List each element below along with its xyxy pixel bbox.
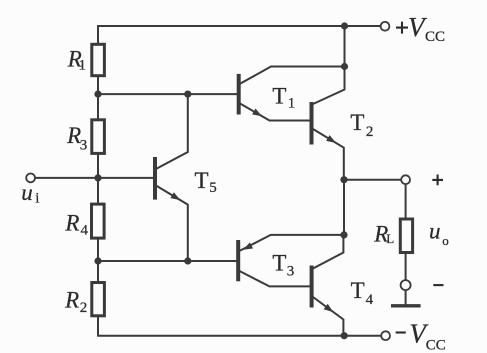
wire +Vcc branch vertical xyxy=(344,26,346,67)
wire T3 emitter to node xyxy=(240,235,345,251)
wire T3 collector to T4 base xyxy=(240,271,310,286)
wire input terminal to T5 base xyxy=(35,177,153,179)
wire bottom rail -Vcc xyxy=(98,335,381,337)
transistor T2 emitter arrow xyxy=(326,135,336,143)
resistor R1 xyxy=(92,44,105,75)
svg-text:CC: CC xyxy=(425,29,445,45)
transistor T1 emitter arrow xyxy=(252,109,262,117)
wire T5 emitter down to node xyxy=(157,186,188,261)
svg-text:3: 3 xyxy=(80,138,88,154)
svg-text:L: L xyxy=(386,231,394,246)
wire T1 emitter to T2 base xyxy=(240,104,310,121)
resistor RL xyxy=(400,219,412,253)
terminal input ui xyxy=(26,174,35,183)
wire output node to terminal xyxy=(344,179,401,181)
svg-text:1: 1 xyxy=(79,57,87,73)
transistor T3 bar xyxy=(236,240,240,281)
node dot top rail xyxy=(341,22,348,29)
svg-text:R: R xyxy=(64,287,79,312)
terminal ground side xyxy=(401,280,411,290)
wire left bus top to R1 xyxy=(97,26,99,45)
wire RL terminal to resistor xyxy=(405,184,407,218)
node dot T5 collector line xyxy=(184,91,191,98)
wire T2 emitter to output node xyxy=(313,129,344,180)
svg-text:o: o xyxy=(442,233,449,248)
svg-text:i: i xyxy=(35,191,39,207)
svg-text:2: 2 xyxy=(366,124,374,140)
svg-text:T: T xyxy=(351,278,365,303)
wire T5 collector up to node xyxy=(157,94,188,168)
terminal output uo xyxy=(401,175,410,184)
svg-text:T: T xyxy=(272,84,286,109)
wire T4 upper lead to node xyxy=(313,235,343,269)
svg-text:T: T xyxy=(350,110,364,135)
node dot T3/T4 emitter junction xyxy=(340,231,347,238)
transistor T5 bar xyxy=(153,157,157,200)
svg-text:4: 4 xyxy=(81,223,89,239)
node dot input junction xyxy=(94,174,101,181)
svg-text:2: 2 xyxy=(80,300,88,316)
wire ground circle to ground xyxy=(405,290,407,304)
resistor R3 xyxy=(92,120,105,154)
label - output xyxy=(433,284,443,286)
svg-text:4: 4 xyxy=(366,292,374,308)
resistor R4 xyxy=(92,204,105,238)
wire RL bottom to ground circle xyxy=(405,253,407,280)
terminal +Vcc xyxy=(381,22,390,31)
node dot R4/R2 xyxy=(94,257,101,264)
wire R2 bottom to bottom rail xyxy=(97,316,99,336)
wire top rail +Vcc xyxy=(98,25,381,27)
transistor T3 emitter arrow (PNP, points to bar) xyxy=(243,242,253,249)
wire node line R4/R2 junction to T3 base xyxy=(98,260,236,262)
wire T2 collector to junction xyxy=(313,67,345,105)
wire output node down to lower node xyxy=(343,180,345,235)
wire R3 bottom to R4 top xyxy=(97,154,99,204)
transistor T4 lower arrow xyxy=(324,304,334,312)
svg-text:T: T xyxy=(195,168,209,193)
svg-text:T: T xyxy=(272,250,286,275)
svg-text:5: 5 xyxy=(209,180,217,196)
svg-text:R: R xyxy=(64,211,79,236)
label -Vcc minus sign xyxy=(396,331,406,333)
transistor T2 bar xyxy=(310,102,314,145)
label +Vcc plus sign xyxy=(396,22,408,34)
transistor T1 bar xyxy=(237,74,241,115)
svg-text:u: u xyxy=(21,180,33,205)
wire T4 lower lead to bottom rail xyxy=(313,297,343,336)
svg-text:CC: CC xyxy=(426,338,446,353)
terminal -Vcc xyxy=(381,331,390,340)
node dot collectors junction xyxy=(341,63,348,70)
svg-text:u: u xyxy=(429,219,441,244)
node dot output xyxy=(340,176,347,183)
ground xyxy=(391,304,421,307)
wire R4 bottom to R2 top xyxy=(97,239,99,283)
label + output xyxy=(432,175,443,186)
svg-text:1: 1 xyxy=(288,96,296,112)
transistor T5 emitter arrow xyxy=(170,192,180,200)
transistor T4 bar xyxy=(310,266,314,308)
node dot T5 emitter line xyxy=(184,257,191,264)
wire T1 collector to junction xyxy=(240,67,345,84)
resistor R2 xyxy=(92,283,105,316)
svg-text:3: 3 xyxy=(287,264,295,280)
wire node line R1/R3 junction to T1 base xyxy=(98,93,237,95)
wire R1 bottom to R3 top xyxy=(97,76,99,119)
node dot bottom rail xyxy=(341,332,348,339)
node dot R1/R3 xyxy=(94,91,101,98)
